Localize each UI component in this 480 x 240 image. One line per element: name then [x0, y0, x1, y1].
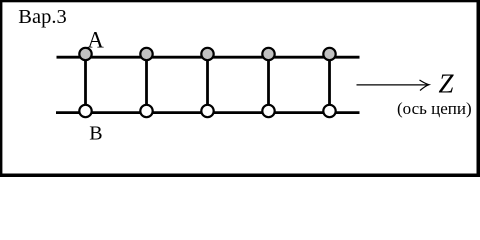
node B2 (white)	[140, 105, 152, 117]
node B4 (white)	[262, 105, 274, 117]
wire rung 2	[145, 54, 148, 111]
node A3 (gray)	[201, 48, 213, 60]
arrowhead	[420, 80, 430, 91]
wire bottom rail	[56, 111, 360, 114]
wire rung 5	[328, 54, 331, 111]
node A5 (gray)	[323, 48, 335, 60]
svg-text:Z: Z	[439, 68, 455, 98]
arrow axis line	[357, 84, 428, 86]
wire rung 1	[84, 54, 87, 111]
wire rung 3	[206, 54, 209, 111]
svg-text:Вар.3: Вар.3	[18, 6, 66, 28]
wire rung 4	[267, 54, 270, 111]
node B5 (white)	[323, 105, 335, 117]
node A2 (gray)	[140, 48, 152, 60]
svg-text:(ось цепи): (ось цепи)	[397, 99, 472, 118]
node B1 (white)	[79, 105, 91, 117]
svg-text:B: B	[89, 123, 102, 145]
node A1 (gray)	[79, 48, 91, 60]
node A4 (gray)	[262, 48, 274, 60]
node B3 (white)	[201, 105, 213, 117]
frame border	[0, 0, 480, 177]
wire top rail	[57, 56, 360, 59]
svg-text:A: A	[87, 27, 104, 52]
